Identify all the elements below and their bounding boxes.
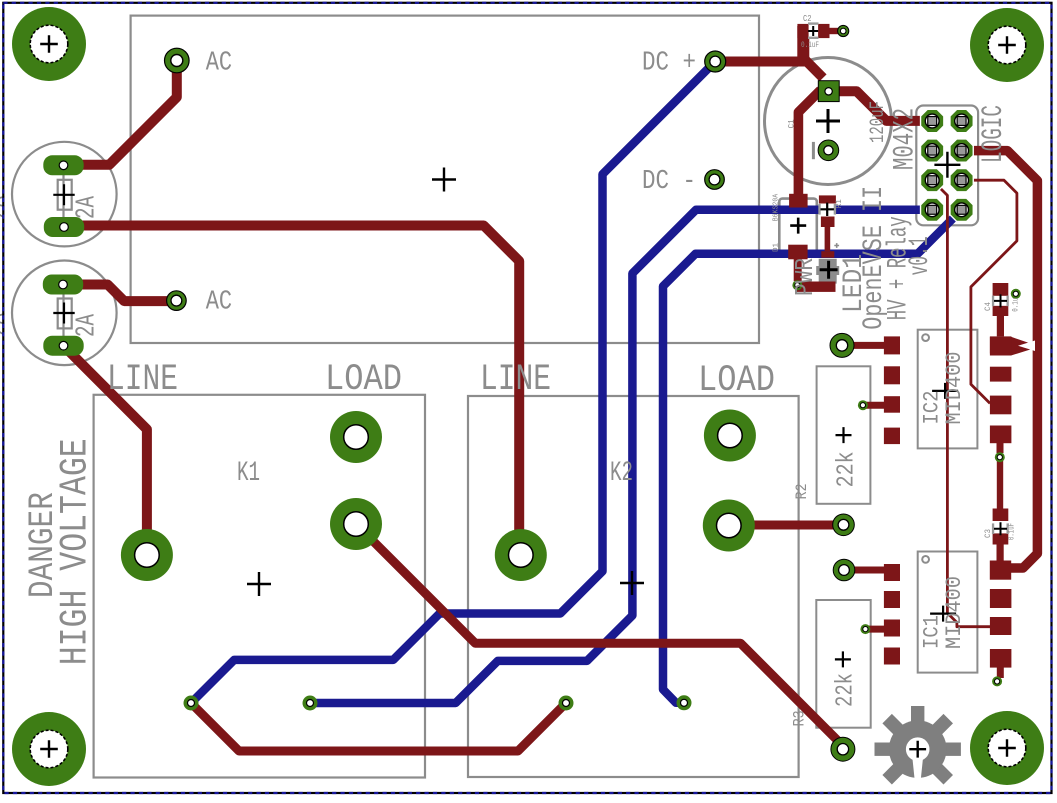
wire red D1 bottom to LED via <box>794 255 802 281</box>
wire red K1 LOAD-bottom to R3 bottom pad <box>356 524 843 746</box>
node IC1 origin cross <box>930 606 956 622</box>
node D1 origin cross <box>790 218 806 234</box>
svg-text:2A: 2A <box>73 195 103 219</box>
capacitor C1 minus bar <box>812 142 815 159</box>
node R3 origin cross <box>835 651 851 667</box>
wire red via to IC2 pad row3 <box>863 402 892 409</box>
IC2 left SMD pads <box>884 336 900 354</box>
svg-text:MID400: MID400 <box>942 576 967 649</box>
relay K1 LOAD pad bottom <box>330 498 382 550</box>
via LED1 <box>792 280 802 290</box>
resistor R3 outline <box>816 600 870 728</box>
wire red fuse F1 bottom to K2 LINE <box>64 226 519 556</box>
resistor R1 pads <box>819 195 836 203</box>
svg-text:M04X2: M04X2 <box>889 108 923 170</box>
svg-text:LINE: LINE <box>107 359 178 401</box>
svg-text:B6KS20A: B6KS20A <box>773 193 781 221</box>
wire red AC1 pad to fuse F1 top <box>64 61 177 165</box>
resistor R2 outline <box>817 366 871 504</box>
wire blue DC+ to K1 coil pad1 <box>191 62 715 704</box>
via C4 <box>1011 289 1021 299</box>
capacitor C4 body <box>992 294 1009 307</box>
pad DC+ <box>705 51 726 72</box>
fuse F2 circle <box>12 261 117 366</box>
wire red K2 LOAD-bottom to R2 bottom pad <box>730 521 844 530</box>
wire red C1+ to J1 row1-left <box>830 91 932 121</box>
svg-text:22k: 22k <box>834 451 861 487</box>
wire blue J1 pin row4-left to K1 coil pad2 <box>310 210 932 703</box>
LED1 polarity plus mark <box>834 243 839 248</box>
wire blue J1 pin row4-right to K2 coil pad2 <box>663 210 962 703</box>
svg-text:MID400: MID400 <box>942 352 967 425</box>
diode bridge D1 outline <box>779 199 817 253</box>
svg-text:D1: D1 <box>773 243 781 252</box>
IC2 pad1 chevron to bus <box>1011 337 1035 356</box>
fuse F1 circle <box>12 142 117 247</box>
svg-text:AC: AC <box>206 287 232 317</box>
pad AC2 <box>167 291 187 311</box>
capacitor C1 minus pad <box>818 140 839 161</box>
relay K1 coil pad1 <box>184 696 199 711</box>
wire red C1+ down to D1 top <box>798 90 820 196</box>
wire red thin J1 row3-left to IC1 pin <box>932 180 990 627</box>
node K1 origin cross <box>247 572 271 596</box>
via C2 <box>838 25 849 36</box>
via IC1 bottom <box>992 676 1002 686</box>
svg-text:R1: R1 <box>835 199 844 208</box>
diode bridge D1 pad bottom <box>788 245 807 260</box>
svg-text:HIGH VOLTAGE: HIGH VOLTAGE <box>54 438 98 665</box>
svg-text:DC +: DC + <box>642 49 696 79</box>
resistor R3 pad bottom <box>831 737 855 761</box>
svg-text:C1: C1 <box>788 119 797 128</box>
via IC2 row3 <box>858 400 868 410</box>
node top box origin cross <box>432 168 456 192</box>
via IC1 row3 <box>860 624 870 634</box>
fuse F1 pad bottom <box>44 217 84 237</box>
resistor R1 body <box>818 203 836 216</box>
wire red fuse F2 top to AC2 pad <box>63 285 176 302</box>
pad DC- <box>705 170 725 190</box>
svg-text:AC: AC <box>206 49 232 79</box>
node R2 origin cross <box>836 427 852 443</box>
svg-text:IC2: IC2 <box>920 391 945 425</box>
capacitor C3 body <box>992 522 1009 535</box>
svg-text:LOAD: LOAD <box>325 359 402 401</box>
wire red DC+ pad to C2/C1 <box>715 57 806 67</box>
connector J1 pins <box>921 109 944 132</box>
svg-text:PWR: PWR <box>790 258 820 296</box>
svg-text:K2: K2 <box>610 458 633 489</box>
svg-text:C4: C4 <box>984 302 993 311</box>
node C1 origin cross <box>816 109 840 133</box>
svg-text:K1: K1 <box>237 458 260 489</box>
wire red C2 right pad to via <box>830 28 844 34</box>
IC2 pin1 marker <box>922 334 929 341</box>
capacitor C1 plus pad <box>818 81 839 102</box>
mounting hole bottom-left <box>12 712 86 786</box>
via IC2 bottom <box>995 452 1005 462</box>
mounting hole top-left <box>12 7 86 81</box>
diode bridge D1 pad top <box>789 194 808 208</box>
resistor R2 pad top <box>830 333 854 357</box>
resistor R2 pad bottom <box>833 514 855 536</box>
node K2 origin cross <box>620 571 644 595</box>
wire red via to IC1 pad row3 <box>865 626 892 633</box>
svg-text:C2: C2 <box>803 13 812 24</box>
gear logo <box>875 706 961 784</box>
relay K2 coil pad2 <box>677 695 692 710</box>
relay K1 LINE pad <box>121 529 173 581</box>
origin crosses black <box>53 109 960 667</box>
svg-text:0.1u: 0.1u <box>1012 298 1021 312</box>
IC2 outline <box>918 330 978 449</box>
svg-text:0.1uF: 0.1uF <box>801 40 819 50</box>
svg-text:22k: 22k <box>833 673 860 707</box>
svg-text:LINE: LINE <box>480 359 551 401</box>
mounting hole top-right <box>970 8 1044 82</box>
svg-text:IC1: IC1 <box>920 615 945 649</box>
node J1 origin cross <box>934 152 960 178</box>
wire red fuse F2 bottom to K1 LINE <box>64 346 147 555</box>
relay K1 outline <box>94 395 425 778</box>
capacitor C3 pads <box>993 509 1009 522</box>
capacitor C1 circle <box>765 58 892 185</box>
relay K2 outline <box>468 396 799 777</box>
wire red R3 top stub to IC1 pad <box>844 567 892 574</box>
LED1 body <box>816 259 839 284</box>
node LED1 origin cross <box>820 261 838 279</box>
relay K1 LOAD pad top <box>330 411 382 463</box>
top section silkscreen box <box>131 16 759 343</box>
relay K2 LOAD pad bottom <box>703 500 755 552</box>
fuse F2 body <box>62 285 64 346</box>
svg-text:R2: R2 <box>793 483 811 499</box>
LED1 pad bottom and link <box>796 282 836 292</box>
svg-text:R3: R3 <box>791 710 809 726</box>
fuse F2 pad top <box>43 275 83 295</box>
svg-text:LOAD: LOAD <box>698 360 775 402</box>
IC1 left SMD pads <box>884 564 900 581</box>
node IC2 origin cross <box>932 383 958 399</box>
wire red R2 top stub to IC2 pad <box>842 342 892 349</box>
svg-text:120uF: 120uF <box>867 101 890 143</box>
fuse F2 pad bottom <box>43 336 83 356</box>
connector J1 outline <box>916 106 978 226</box>
relay K1 coil pad2 <box>303 696 318 711</box>
pad AC1 <box>165 48 190 73</box>
node F1 origin cross <box>53 184 74 205</box>
svg-text:2A: 2A <box>0 195 14 219</box>
IC1 outline <box>918 552 978 673</box>
svg-text:0.1uF: 0.1uF <box>1008 523 1017 540</box>
capacitor C2 pads <box>797 24 809 38</box>
svg-text:2A: 2A <box>73 313 103 337</box>
resistor R3 pad top <box>833 559 855 581</box>
wire red thick J1 row2-right to IC1 pad via right side bus <box>962 151 1038 568</box>
IC1 right SMD pads <box>990 561 1011 580</box>
mounting hole bottom-right <box>970 711 1044 785</box>
svg-text:LOGIC: LOGIC <box>977 105 1011 163</box>
relay K2 coil pad1 <box>559 696 574 711</box>
fuse F1 body <box>62 165 64 227</box>
wire red K1 pad1 to K2 pad1 bottom link <box>191 703 566 751</box>
svg-text:C3: C3 <box>984 529 993 538</box>
svg-text:v0.1: v0.1 <box>905 236 936 275</box>
IC2 right SMD pads <box>990 337 1012 356</box>
IC1 pin1 marker <box>922 556 929 563</box>
wire red thin J1 row3-right to IC2 pin <box>962 180 1017 403</box>
node F2 origin cross <box>53 303 74 324</box>
capacitor C2 body <box>808 22 819 39</box>
svg-text:DC -: DC - <box>642 167 696 197</box>
capacitor C4 pads and trace to bus <box>993 283 1009 296</box>
relay K2 LOAD pad top <box>704 410 756 462</box>
svg-text:2A: 2A <box>0 312 14 336</box>
fuse F1 pad top <box>43 155 83 175</box>
relay K2 LINE pad <box>495 529 547 581</box>
